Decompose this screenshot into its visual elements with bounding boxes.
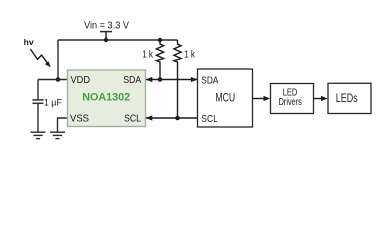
wire VDD [38,79,68,81]
svg-text:SDA: SDA [123,74,141,86]
photon arrow hv [30,49,51,67]
node rail/R1 junction [158,38,162,42]
Vin supply terminal [100,32,112,40]
svg-text:VDD: VDD [71,74,91,86]
svg-text:MCU: MCU [215,92,235,104]
LED Drivers box [271,84,314,114]
wire SDA bus [146,77,198,82]
capacitor C1 [33,80,44,132]
node VDD junction [56,77,61,82]
svg-text:1 k: 1 k [142,49,153,60]
svg-text:1 k: 1 k [184,49,195,60]
node R2/SCL junction [175,116,180,121]
wire left drop to VDD [57,40,59,80]
node R1/SDA junction [158,77,163,82]
resistor R2 1k [174,40,181,118]
svg-text:hv: hv [24,37,34,47]
svg-text:SDA: SDA [201,74,218,86]
svg-text:Vin = 3.3 V: Vin = 3.3 V [84,20,129,31]
wire VSS [58,118,68,132]
svg-text:LEDs: LEDs [336,93,358,105]
ground (capacitor) [31,132,46,138]
ground (VSS) [50,132,65,138]
svg-text:NOA1302: NOA1302 [82,92,130,104]
svg-text:SCL: SCL [124,113,141,125]
LEDs box [328,83,371,113]
svg-text:Drivers: Drivers [279,97,302,108]
svg-text:1 µF: 1 µF [44,97,63,107]
svg-text:SCL: SCL [201,113,218,125]
wire LED drivers to LEDs [314,96,328,101]
wire Vin rail [58,39,178,41]
MCU box [198,69,253,127]
node Vin tap junction [104,38,108,42]
wire MCU to LED drivers [253,96,271,101]
resistor R1 1k [156,40,163,80]
IC U1 NOA1302 box [68,70,146,127]
svg-text:VSS: VSS [70,113,89,125]
wire SCL bus [146,115,198,120]
